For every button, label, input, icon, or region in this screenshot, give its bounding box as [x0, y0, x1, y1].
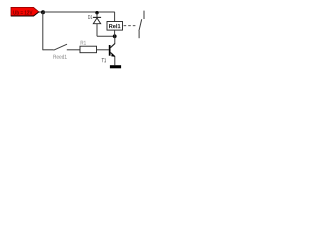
wire diode bottom to collector node [97, 35, 115, 37]
ground [110, 65, 121, 68]
wire top rail [43, 11, 115, 13]
wire base [97, 49, 109, 51]
dashed linkage [124, 25, 137, 27]
wire flag to node [39, 11, 43, 13]
junction dot collector node [113, 34, 117, 38]
transistor T1 [102, 36, 116, 65]
wire left vertical [42, 12, 44, 50]
reed switch Reed1 [43, 44, 80, 59]
relay contact [139, 11, 144, 39]
resistor R1 [80, 41, 97, 53]
label D1 [88, 15, 92, 19]
power flag Ub = 12V [11, 7, 39, 16]
junction dot diode tap [95, 11, 98, 14]
node junction dot left [41, 10, 45, 14]
relay coil Rel1 [107, 12, 123, 36]
diode D1 [93, 13, 101, 37]
